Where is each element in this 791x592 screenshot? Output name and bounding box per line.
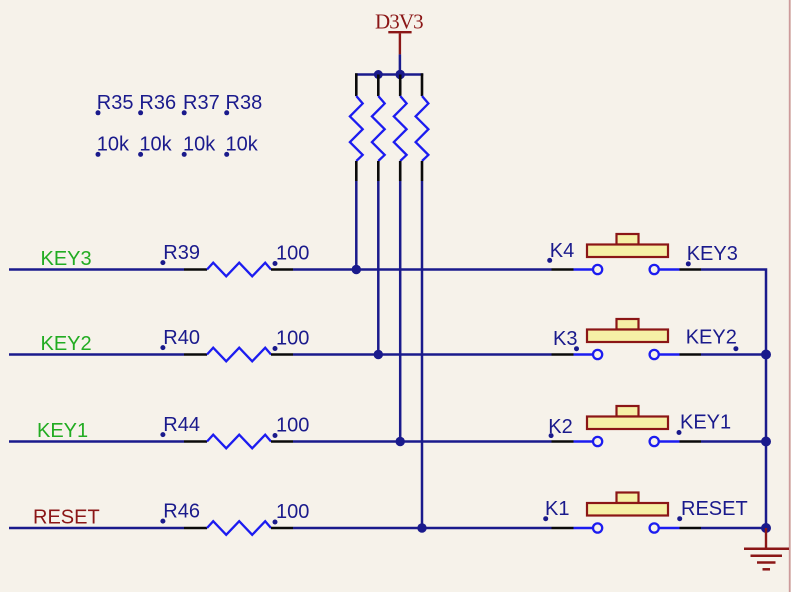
node junction row1 col1 [352, 265, 361, 274]
svg-text:KEY2: KEY2 [686, 327, 737, 349]
svg-text:100: 100 [276, 501, 309, 523]
net label RESET right [677, 498, 747, 521]
wire power stem [399, 54, 402, 74]
svg-text:10k: 10k [226, 133, 259, 155]
wire column 3 to row KEY1 [399, 181, 402, 442]
wire row3 left [9, 440, 184, 443]
svg-text:KEY1: KEY1 [680, 412, 731, 434]
resistor R38 (vertical) [416, 73, 429, 181]
svg-text:KEY3: KEY3 [687, 243, 738, 265]
node junction row4 col4 [417, 523, 426, 532]
node junction row4 bus [761, 523, 771, 533]
wire column 1 to row KEY3 [355, 181, 358, 270]
label K3 [553, 328, 579, 351]
svg-text:R37: R37 [183, 92, 220, 114]
wire row1 middle [293, 268, 552, 271]
svg-text:10k: 10k [139, 133, 172, 155]
label R46 [160, 501, 200, 524]
switch K3 [552, 319, 702, 359]
value 100 R44 [273, 415, 310, 439]
wire column 2 to row KEY2 [377, 181, 380, 355]
wire top horizontal bus [355, 73, 423, 76]
svg-text:R40: R40 [163, 327, 200, 349]
svg-text:10k: 10k [183, 133, 216, 155]
svg-text:KEY2: KEY2 [41, 333, 92, 355]
svg-text:KEY3: KEY3 [41, 248, 92, 270]
net label KEY2 right [686, 327, 739, 352]
label K4 [547, 240, 574, 263]
wire row4 middle [293, 527, 552, 530]
node junction row3 col3 [396, 437, 405, 446]
label R40 [160, 327, 200, 350]
resistor R44 [184, 435, 293, 449]
node junction top col3 [396, 70, 405, 79]
label R37 [182, 92, 220, 116]
wire row3 right [701, 440, 766, 443]
value 10k R38 [224, 133, 259, 157]
svg-text:RESET: RESET [681, 498, 748, 520]
svg-text:R44: R44 [163, 414, 200, 436]
switch K4 [552, 234, 702, 274]
label R39 [160, 242, 200, 265]
switch K1 [552, 493, 702, 533]
wire row4 left [9, 527, 184, 530]
value 100 R46 [273, 501, 310, 525]
wire column 4 to row RESET [421, 181, 424, 528]
label K2 [548, 416, 572, 438]
value 100 R40 [273, 328, 310, 352]
node junction row2 bus [761, 350, 771, 360]
power port D3V3 [375, 10, 423, 55]
svg-text:D3V3: D3V3 [375, 10, 423, 34]
sheet edge line [789, 0, 791, 592]
wire row1 right to bus corner [701, 270, 766, 529]
svg-text:100: 100 [276, 243, 309, 265]
wire row2 middle [293, 353, 552, 356]
svg-text:10k: 10k [97, 133, 130, 155]
svg-text:K1: K1 [545, 498, 569, 520]
svg-text:KEY1: KEY1 [37, 420, 88, 442]
value 10k R36 [138, 133, 173, 157]
svg-text:R38: R38 [226, 92, 263, 114]
label R36 [138, 92, 176, 116]
svg-text:K4: K4 [550, 240, 574, 262]
svg-text:R36: R36 [139, 92, 176, 114]
wire row2 right [701, 353, 766, 356]
label R35 [96, 92, 134, 116]
label K1 [543, 498, 569, 521]
svg-text:R35: R35 [97, 92, 134, 114]
resistor R40 [184, 348, 293, 362]
resistor R46 [184, 521, 293, 535]
wire row4 right [701, 527, 766, 530]
svg-text:RESET: RESET [33, 507, 100, 529]
label R44 [160, 414, 200, 437]
svg-text:100: 100 [276, 415, 309, 437]
node junction row2 col2 [374, 350, 383, 359]
resistor R39 [184, 263, 293, 277]
label R38 [224, 92, 262, 116]
resistor R36 (vertical) [372, 75, 385, 182]
node junction row3 bus [761, 437, 771, 447]
net label KEY3 right [686, 243, 738, 266]
wire row2 left [9, 353, 184, 356]
net label KEY1 right [677, 412, 732, 436]
resistor R35 (vertical) [350, 73, 363, 181]
svg-text:R39: R39 [163, 242, 200, 264]
svg-text:R46: R46 [163, 501, 200, 523]
switch K2 [552, 406, 702, 446]
svg-text:K3: K3 [553, 328, 577, 350]
value 10k R37 [182, 133, 217, 157]
wire row1 left [9, 268, 184, 271]
value 10k R35 [96, 133, 131, 157]
ground [744, 528, 789, 569]
svg-text:100: 100 [276, 328, 309, 350]
resistor R37 (vertical) [394, 75, 407, 182]
wire row3 middle [293, 440, 552, 443]
node junction top col2 [374, 70, 383, 79]
value 100 R39 [273, 243, 310, 267]
